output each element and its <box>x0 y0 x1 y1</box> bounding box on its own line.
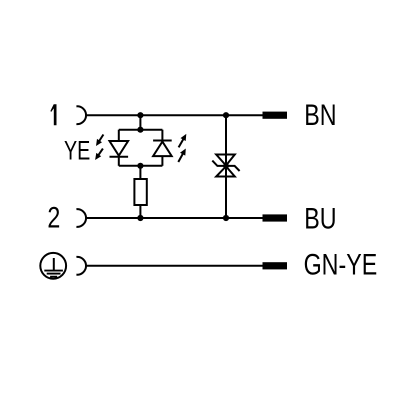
svg-text:YE: YE <box>64 136 90 165</box>
pin 2 label <box>47 201 60 235</box>
node block top <box>137 127 143 133</box>
suppressor diode Z1 (bidirectional) <box>212 155 239 177</box>
LED D2 right (cathode up) <box>153 130 172 166</box>
protective earth symbol <box>40 253 66 279</box>
label GN-YE <box>304 247 378 281</box>
node junction wire2/suppressor branch <box>223 215 229 221</box>
LED D1 left (cathode down) <box>110 130 129 166</box>
node junction wire1/suppressor branch <box>223 112 229 118</box>
wire LED branch from wire1 to block <box>139 115 141 130</box>
wire pin1 to BN <box>86 114 264 116</box>
suppressor branch wire <box>225 115 227 218</box>
LED D2 light arrows <box>178 134 186 162</box>
svg-text:BU: BU <box>304 202 336 236</box>
svg-text:BN: BN <box>304 98 336 132</box>
svg-text:GN-YE: GN-YE <box>304 247 378 281</box>
node block bottom <box>137 163 143 169</box>
ground pin contact <box>76 257 86 275</box>
wire end BN <box>263 112 288 119</box>
LED D1 light arrows <box>95 135 103 161</box>
node junction wire1/LED branch <box>137 112 143 118</box>
pin 1 contact <box>76 106 86 124</box>
node junction wire2/LED branch <box>137 215 143 221</box>
resistor R1 <box>134 179 146 205</box>
wire block top bar <box>119 129 163 131</box>
wire end GN-YE <box>263 262 288 269</box>
wire resistor to wire2 <box>139 205 141 218</box>
label BN <box>304 98 336 132</box>
label BU <box>304 202 336 236</box>
wire block bottom to resistor <box>139 166 141 179</box>
svg-text:2: 2 <box>47 201 60 235</box>
wire end BU <box>263 214 288 221</box>
pin 2 contact <box>76 209 86 227</box>
wire block bottom bar <box>119 165 163 167</box>
wire ground to GN-YE <box>86 265 264 267</box>
pin 1 label <box>51 104 57 125</box>
label YE <box>64 136 90 165</box>
wire pin2 to BU <box>86 217 264 219</box>
